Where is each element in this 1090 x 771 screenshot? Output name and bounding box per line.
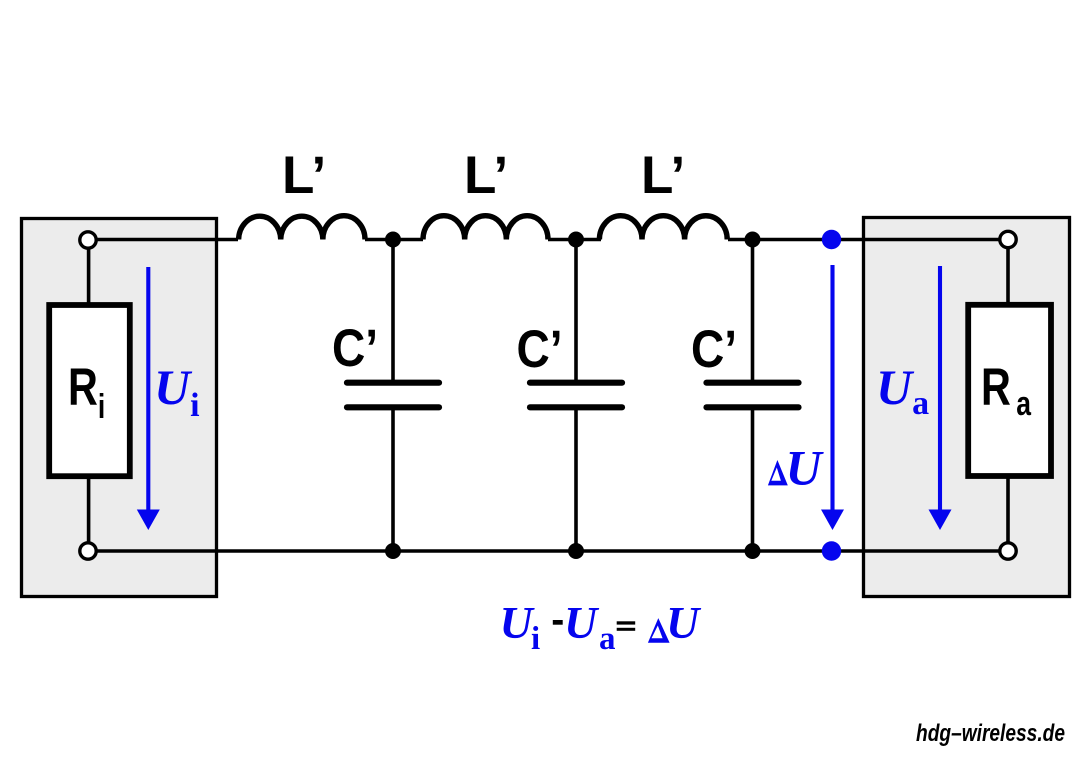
wire: top rail, L'2 to L'3 [548,238,601,242]
node: junction dot top 2 [568,232,584,248]
label dU (blue, near arrow) [768,460,788,485]
node: junction dot top 1 [385,232,401,248]
arrow Ui (blue voltage arrow, left) [137,267,160,530]
capacitor C'2 [530,383,622,408]
arrow Ua (blue voltage arrow, right) [929,266,952,530]
terminal circle: right bottom [1000,543,1016,559]
wire: bottom rail [96,549,1000,553]
svg-text:C’: C’ [517,319,563,379]
inductor L'2 [423,216,548,240]
node: junction dot bottom 2 [568,543,584,559]
node: blue measurement dot top [822,230,841,249]
wire: C'1 bottom lead [391,410,395,551]
terminal circle: left top [80,232,96,248]
formula minus sign [553,620,563,625]
source box (left network frame) [22,219,217,597]
wire: Ra top lead [1006,247,1010,302]
terminal circle: right top [1000,231,1016,247]
wire: C'2 top lead [574,240,578,381]
svg-text:U: U [786,440,825,496]
svg-text:C’: C’ [332,318,378,378]
wire: top rail, terminal to L'1 [96,238,238,242]
wire: top rail, L'1 to L'2 [365,238,423,242]
formula equals sign [617,621,636,624]
node: junction dot top 3 [745,232,761,248]
resistor Ri body [49,305,130,476]
wire: C'3 bottom lead [751,410,755,551]
capacitor C'3 [707,383,799,408]
capacitor C'1 [347,383,439,408]
node: junction dot bottom 1 [385,543,401,559]
inductor L'3 [599,216,727,240]
load box (right network frame) [864,218,1070,597]
inductor L'1 [239,216,365,240]
wire: C'3 top lead [751,240,755,381]
wire: Ra bottom lead [1006,477,1010,543]
svg-text:L’: L’ [641,146,685,205]
node: blue measurement dot bottom [822,541,841,560]
svg-text:hdg–wireless.de: hdg–wireless.de [916,720,1065,747]
svg-text:C’: C’ [691,319,737,379]
formula delta symbol [648,618,670,643]
svg-text:L’: L’ [464,146,508,205]
svg-text:UiUaU: UiUaU [500,597,703,657]
resistor Ra body [968,305,1051,476]
wire: C'1 top lead [391,240,395,381]
svg-text:L’: L’ [282,146,326,205]
arrow dU (blue voltage arrow, middle-right) [821,265,844,530]
terminal circle: left bottom [80,543,96,559]
wire: C'2 bottom lead [574,410,578,551]
wire: Ri bottom lead [87,477,91,543]
wire: top rail, L'3 to right terminal [728,238,1000,242]
node: junction dot bottom 3 [745,543,761,559]
wire: Ri top lead [87,248,91,303]
